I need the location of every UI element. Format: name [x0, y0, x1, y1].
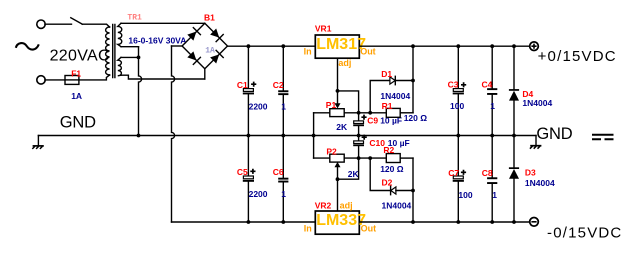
svg-text:1: 1 — [281, 102, 286, 112]
svg-text:220VAC: 220VAC — [50, 47, 110, 64]
wire fuse to transformer primary bottom — [79, 75, 110, 80]
diode D2 — [370, 158, 390, 190]
svg-text:C4: C4 — [482, 80, 493, 90]
GND rail — [38, 135, 536, 137]
wire secondary center tap leads — [121, 47, 139, 58]
AC source symbol ~ — [16, 43, 39, 49]
node D2 branch — [368, 156, 372, 160]
DC symbol — [592, 134, 614, 136]
capacitor C9 — [358, 113, 360, 121]
svg-text:P1: P1 — [326, 100, 337, 110]
resistor R1 — [386, 108, 400, 117]
svg-text:R2: R2 — [383, 145, 394, 155]
capacitor C6 — [282, 136, 284, 178]
ground symbol left — [37, 136, 39, 146]
node P1/P2 vertical on GND — [312, 134, 316, 138]
capacitor C1 — [247, 46, 249, 88]
svg-text:GND: GND — [536, 125, 572, 143]
svg-text:P2: P2 — [326, 147, 337, 157]
wire bridge bottom vertex stub — [204, 69, 206, 79]
capacitor C2 — [282, 46, 284, 90]
svg-text:D2: D2 — [382, 177, 393, 187]
transformer TR1 secondary lower winding — [118, 57, 122, 75]
terminal -output — [530, 218, 539, 227]
diode D3 — [513, 136, 515, 168]
svg-text:120 Ω: 120 Ω — [380, 164, 404, 174]
wire center tap vertical to GND rail (hops bottom lead) — [139, 47, 142, 136]
svg-text:LM337: LM337 — [316, 212, 366, 229]
terminal T1 (AC live input) — [37, 20, 45, 28]
wire adj branch to P2 right end — [338, 158, 359, 179]
wire VR2 out to - terminal — [359, 221, 529, 223]
svg-text:adj: adj — [338, 58, 351, 68]
svg-text:Out: Out — [361, 224, 377, 234]
svg-text:1N4004: 1N4004 — [522, 98, 552, 108]
svg-text:In: In — [304, 224, 312, 234]
negative rail bridge to VR2 In — [172, 221, 316, 223]
svg-text:16-0-16V 30VA: 16-0-16V 30VA — [128, 35, 186, 45]
wire negative feed vertical (hops AC lead and GND rail) — [172, 46, 175, 222]
svg-text:C3: C3 — [448, 80, 459, 90]
svg-text:-0/15VDC: -0/15VDC — [547, 225, 622, 242]
wire VR1 out to + terminal — [359, 45, 529, 47]
svg-text:1N4004: 1N4004 — [382, 200, 412, 210]
svg-text:C1: C1 — [237, 80, 248, 90]
node C3 top — [456, 44, 460, 48]
node C10 bottom — [357, 156, 361, 160]
node out rail / vertical (VR2) — [411, 220, 415, 224]
svg-text:C2: C2 — [273, 80, 284, 90]
wire P2 right to R2 left (adj row) — [344, 157, 386, 159]
wire bridge left vertex stub — [172, 45, 183, 47]
svg-text:1: 1 — [492, 190, 497, 200]
svg-text:VR1: VR1 — [315, 24, 332, 34]
node center-tap / GND rail — [137, 134, 141, 138]
bridge diode lower-right — [210, 50, 224, 64]
svg-text:+0/15VDC: +0/15VDC — [538, 48, 617, 65]
svg-text:D1: D1 — [381, 69, 392, 79]
bridge diode lower-left — [187, 51, 201, 65]
svg-text:C6: C6 — [273, 167, 284, 177]
node adj branch (VR2) — [336, 177, 340, 181]
potentiometer P1 — [330, 109, 344, 117]
P2 wiper arrowhead — [335, 162, 341, 167]
node D4/D3 on GND — [512, 134, 516, 138]
node center tap junction — [137, 56, 141, 60]
wire T2 to fuse — [45, 79, 65, 81]
svg-text:100: 100 — [450, 101, 464, 111]
svg-text:1A: 1A — [71, 91, 82, 101]
svg-text:2K: 2K — [348, 169, 360, 179]
diode D1 — [370, 81, 390, 113]
node D3 bottom — [512, 220, 516, 224]
svg-text:C5: C5 — [237, 167, 248, 177]
node C7 bottom — [456, 220, 460, 224]
wire R2/D2 vertical to -out rail — [412, 158, 414, 222]
node out rail / vertical — [411, 44, 415, 48]
node C6 top — [281, 220, 285, 224]
svg-text:120 Ω: 120 Ω — [404, 113, 428, 123]
wire VR2 adj to P2 wiper — [337, 167, 339, 212]
capacitor C5 — [247, 136, 249, 177]
svg-text:1N4004: 1N4004 — [380, 91, 410, 101]
ground symbol right — [535, 136, 537, 146]
svg-text:C7: C7 — [448, 168, 459, 178]
svg-text:1N4004: 1N4004 — [525, 178, 555, 188]
transformer TR1 core — [113, 25, 115, 78]
node D2 right — [411, 189, 415, 193]
wire P1 left terminal — [314, 112, 330, 114]
node C1 bottom — [247, 134, 251, 138]
svg-text:R1: R1 — [382, 101, 393, 111]
svg-text:C9: C9 — [367, 116, 378, 126]
bridge diode upper-left — [187, 28, 201, 42]
transformer TR1 primary winding — [106, 27, 110, 75]
capacitor C3 — [457, 46, 459, 88]
transformer TR1 secondary upper winding — [118, 23, 122, 46]
terminal T2 (AC neutral input) — [37, 76, 45, 84]
svg-text:B1: B1 — [204, 13, 215, 23]
bridge rectifier B1 diamond — [182, 23, 227, 68]
capacitor C8 — [491, 136, 493, 178]
node C9/C10 on GND — [357, 134, 361, 138]
node C2 top — [281, 44, 285, 48]
node C4 bottom — [490, 134, 494, 138]
svg-text:2K: 2K — [336, 122, 348, 132]
capacitor C7 — [457, 136, 459, 177]
node D1 right — [411, 79, 415, 83]
switch S1 lever — [71, 18, 83, 25]
regulator VR2 LM337 — [315, 211, 359, 234]
svg-text:F1: F1 — [71, 68, 81, 78]
resistor R2 — [386, 154, 400, 163]
wire T1 to switch — [45, 23, 72, 25]
bridge diode upper-right — [210, 28, 224, 42]
fuse F1 — [65, 76, 79, 85]
label C9 + — [361, 115, 366, 120]
node C9 top — [357, 111, 361, 115]
svg-text:LM317: LM317 — [316, 36, 366, 53]
node adj branch — [336, 89, 340, 93]
svg-text:In: In — [304, 46, 312, 56]
svg-text:D3: D3 — [525, 168, 536, 178]
wire P2 left terminal — [314, 157, 330, 159]
wire positive rail bridge to VR1 In — [228, 45, 316, 47]
label + C10 — [362, 135, 367, 140]
svg-text:TR1: TR1 — [127, 14, 142, 23]
terminal +output — [530, 42, 539, 51]
regulator VR1 LM317 — [315, 35, 359, 58]
diode D4 — [513, 46, 515, 89]
svg-text:VR2: VR2 — [315, 201, 332, 211]
svg-text:adj: adj — [340, 200, 353, 210]
svg-text:1: 1 — [490, 101, 495, 111]
node D4 top — [512, 44, 516, 48]
svg-text:2200: 2200 — [249, 189, 268, 199]
P1 wiper arrowhead — [335, 103, 341, 108]
wire adj branch to P1 right end — [338, 91, 359, 113]
node C4 top — [490, 44, 494, 48]
svg-text:100: 100 — [458, 190, 472, 200]
node C2 bottom — [281, 134, 285, 138]
node C5 top — [247, 220, 251, 224]
wire secondary bottom lead to bridge bottom stub — [121, 75, 205, 79]
capacitor C10 — [358, 136, 360, 141]
svg-text:1A: 1A — [205, 46, 215, 55]
svg-text:GND: GND — [60, 114, 96, 132]
svg-text:2200: 2200 — [249, 102, 268, 112]
node C1 top — [247, 44, 251, 48]
svg-text:1: 1 — [281, 189, 286, 199]
potentiometer P2 — [330, 154, 344, 162]
wire switch to transformer primary — [82, 24, 109, 27]
svg-text:Out: Out — [360, 47, 376, 57]
wire R1/D1 vertical to out rail — [412, 46, 414, 113]
svg-text:C8: C8 — [482, 168, 493, 178]
wire P1 right to R1 left (adj row) — [344, 112, 386, 114]
wire VR1 adj to P1 wiper — [337, 58, 339, 104]
wire secondary top lead to bridge top vertex — [121, 22, 205, 24]
capacitor C4 — [491, 46, 493, 88]
wire P1/P2 left vertical to GND — [313, 113, 315, 158]
node D1 branch — [368, 111, 372, 115]
node C3 bottom — [456, 134, 460, 138]
node C8 bottom — [490, 220, 494, 224]
